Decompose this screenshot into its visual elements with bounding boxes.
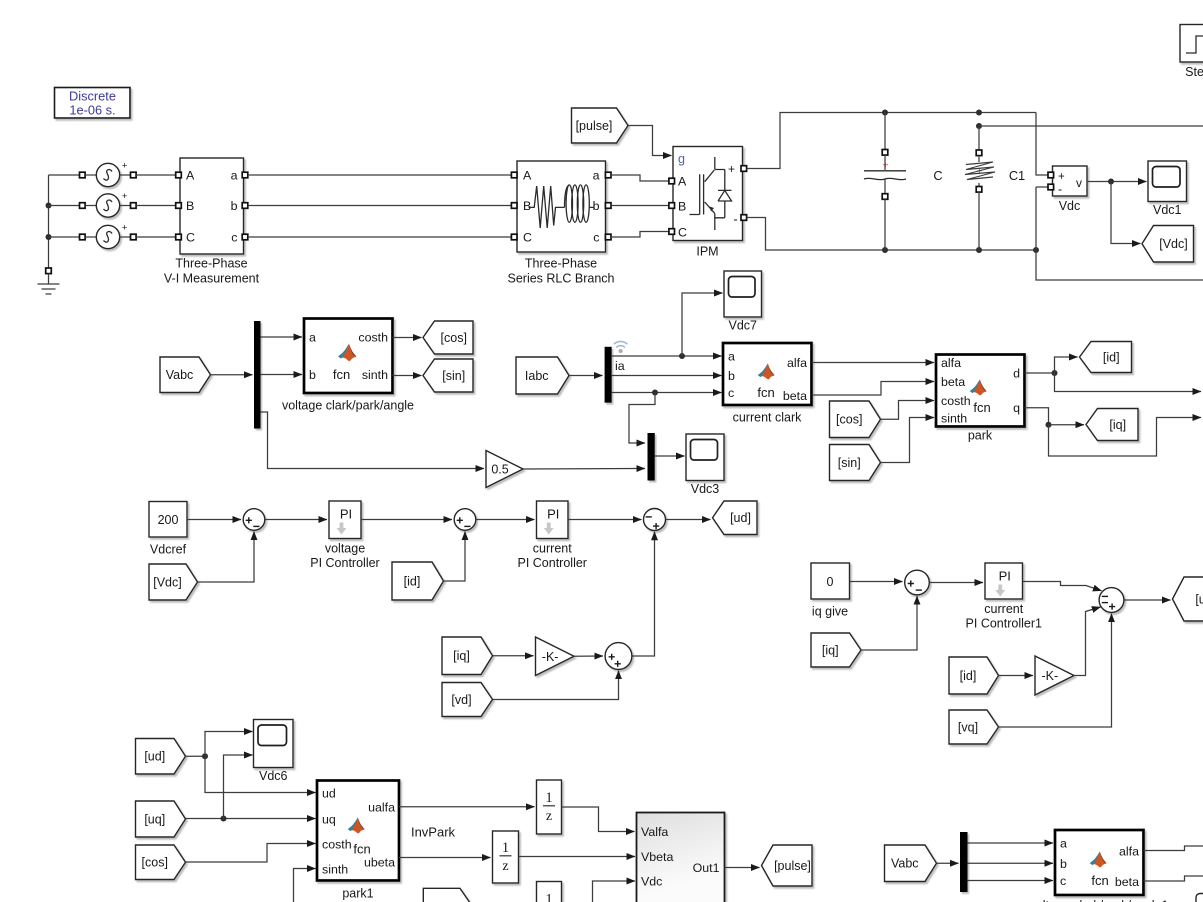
svg-text:PI Controller: PI Controller	[310, 556, 379, 570]
svg-text:fcn: fcn	[1091, 873, 1108, 888]
from tag [cos] to park1	[136, 845, 186, 880]
svg-text:Vdc3: Vdc3	[691, 482, 720, 496]
svg-text:+: +	[728, 162, 735, 176]
unit delay 1/z a	[537, 780, 562, 834]
svg-text:alfa: alfa	[787, 356, 807, 370]
node: bottom bus at C1	[976, 247, 982, 253]
svg-text:costh: costh	[322, 838, 352, 852]
svg-text:Series RLC Branch: Series RLC Branch	[508, 272, 615, 286]
svg-text:b: b	[593, 199, 600, 213]
svg-text:[pulse]: [pulse]	[576, 119, 613, 133]
svg-text:ud: ud	[322, 787, 336, 801]
svg-text:fcn: fcn	[973, 400, 990, 415]
svg-text:PI Controller1: PI Controller1	[966, 617, 1042, 631]
svg-text:1: 1	[545, 891, 552, 902]
wire: clark alfa to park	[812, 362, 935, 364]
goto tag [cos]	[423, 321, 473, 354]
wire: sum1 to voltage PI	[265, 519, 327, 521]
from tag Vabc	[160, 357, 211, 393]
wire: uq to park1 and Vdc6	[186, 818, 316, 820]
wires: measurement outputs a b c to RLC branch	[248, 174, 511, 176]
goto tag [sin]	[423, 359, 473, 392]
goto tag [uq] (clipped)	[1173, 577, 1203, 621]
wire: demux out a	[261, 336, 303, 338]
svg-text:[id]: [id]	[1103, 350, 1120, 364]
svg-text:v: v	[1076, 176, 1082, 190]
from tag [uq] to park1	[136, 801, 186, 837]
svg-text:C: C	[523, 231, 532, 245]
wire: ud to park1 and Vdc6	[186, 755, 206, 757]
svg-text:Vdc1: Vdc1	[1153, 203, 1182, 217]
svg-text:Step: Step	[1185, 65, 1203, 79]
svg-text:a: a	[593, 169, 600, 183]
block: current PI Controller	[537, 501, 569, 539]
node: neutral junction B	[46, 203, 52, 209]
svg-text:uq: uq	[322, 813, 336, 827]
icon: IGBT with anti-parallel diode	[690, 157, 732, 230]
unit delay 1/z b	[493, 831, 519, 883]
goto tag [iq]	[1086, 409, 1138, 441]
svg-text:-K-: -K-	[1041, 669, 1058, 683]
wire: 0 to sum5	[850, 581, 903, 583]
svg-text:-K-: -K-	[542, 650, 559, 664]
node: bottom bus right	[1033, 247, 1039, 253]
wire: current PI to sum3	[568, 519, 642, 521]
svg-text:voltage: voltage	[325, 542, 365, 556]
gain -K- 2	[1035, 656, 1074, 695]
svg-text:IPM: IPM	[696, 245, 718, 259]
wire: demux out b	[261, 374, 303, 376]
svg-text:c: c	[728, 386, 734, 400]
wire: sin to sinth	[881, 418, 935, 463]
svg-text:a: a	[1060, 837, 1067, 851]
svg-text:1: 1	[502, 840, 509, 856]
wire: IPM + output to DC top bus	[747, 113, 1037, 169]
svg-text:C: C	[186, 231, 195, 245]
wire: IPM - output to DC bottom bus	[747, 218, 1037, 251]
svg-text:fcn: fcn	[757, 385, 774, 400]
wire: q output to [iq] and right edge	[1025, 408, 1049, 425]
svg-text:[id]: [id]	[404, 574, 421, 588]
block: fcn voltage clark bottom	[1055, 830, 1144, 895]
wire: cos to costh	[881, 401, 935, 420]
wire: Vdc v output to scope and goto	[1088, 181, 1147, 183]
from tag [sin] to park	[830, 445, 881, 481]
sum2 current error	[454, 509, 476, 531]
svg-text:[id]: [id]	[960, 669, 977, 683]
from tag Iabc	[516, 357, 569, 394]
svg-text:current clark: current clark	[733, 411, 803, 425]
svg-text:Vdc6: Vdc6	[259, 769, 288, 783]
block: Vdc voltage measurement	[1053, 166, 1088, 196]
wire: 1/z b to Out1 Vbeta	[519, 856, 636, 858]
svg-text:current: current	[984, 602, 1023, 616]
wire: demux bottom to 0.5 gain	[261, 412, 485, 469]
goto tag [Vdc]	[1142, 226, 1194, 263]
block: Three-Phase Series RLC Branch	[517, 161, 606, 252]
constant 200 Vdcref	[149, 502, 187, 538]
wire: beta to right edge	[1144, 876, 1203, 881]
svg-text:z: z	[502, 859, 508, 874]
from tag [Vdc] feedback	[149, 564, 198, 600]
svg-text:[Vdc]: [Vdc]	[153, 575, 182, 589]
sum1 voltage error	[243, 509, 265, 531]
svg-text:b: b	[309, 368, 316, 382]
svg-text:[cos]: [cos]	[441, 331, 467, 345]
svg-text:Vdc: Vdc	[1059, 199, 1081, 213]
svg-text:[cos]: [cos]	[142, 856, 168, 870]
svg-text:a: a	[309, 331, 316, 345]
svg-text:b: b	[231, 199, 238, 213]
svg-text:1e-06 s.: 1e-06 s.	[69, 103, 115, 118]
wire: -K-2 to sum6	[1074, 607, 1101, 676]
wire: ia to current clark a and Vdc7	[612, 355, 722, 357]
from tag [vd]	[442, 683, 493, 717]
svg-text:0: 0	[827, 575, 834, 589]
ground symbol	[46, 268, 52, 274]
wire: ib to current clark b	[612, 375, 722, 377]
wire: ubeta to unit delay b	[399, 857, 491, 859]
block corner bottom right	[1196, 894, 1203, 902]
from tag [id] decouple	[949, 657, 999, 694]
demux bus selector (voltage)	[254, 321, 261, 429]
svg-text:alfa: alfa	[1119, 845, 1139, 859]
AC voltage source phase C	[49, 236, 80, 238]
svg-text:A: A	[678, 175, 687, 189]
wire: id to sum2	[444, 532, 466, 582]
svg-text:ia: ia	[615, 359, 625, 373]
svg-text:Iabc: Iabc	[525, 369, 549, 383]
svg-text:InvPark: InvPark	[411, 825, 456, 840]
unit delay 1/z c (partial)	[537, 882, 562, 902]
node: neutral junction C	[46, 234, 52, 240]
svg-text:sinth: sinth	[362, 368, 388, 382]
gain -K- (wL)	[536, 637, 575, 676]
wires: demux3 to fcn abc	[968, 842, 1054, 844]
svg-text:Vdc7: Vdc7	[729, 319, 758, 333]
demux bus selector (current)	[605, 347, 612, 403]
svg-text:current: current	[533, 542, 572, 556]
wire: cos to park1 costh	[186, 844, 316, 863]
demux bus selector bottom	[960, 832, 968, 892]
constant 0 iq give	[811, 563, 850, 599]
svg-text:ualfa: ualfa	[368, 801, 395, 815]
capacitor C1 snubber branch	[978, 126, 980, 150]
wires: RLC outputs to IPM A B C	[611, 175, 670, 181]
icon: signal logging badge	[614, 341, 628, 347]
svg-text:Out1: Out1	[693, 861, 720, 875]
from tag [ud] to park1	[136, 739, 186, 775]
from tag [vq]	[949, 710, 999, 744]
svg-text:B: B	[186, 199, 194, 213]
block: fcn current clark	[723, 343, 812, 405]
from tag [iq] feedback	[811, 633, 861, 667]
svg-text:[ud]: [ud]	[144, 750, 165, 764]
from tag [id] feedback	[392, 562, 444, 600]
from tag partial bottom	[423, 888, 471, 902]
svg-text:sinth: sinth	[322, 863, 348, 877]
icon: RLC resistor zigzag and inductor coil	[529, 186, 565, 228]
svg-text:PI Controller: PI Controller	[518, 556, 587, 570]
node: top bus at C1	[976, 110, 982, 116]
wire: sinth to [sin]	[393, 375, 422, 377]
wire: sum4 up to sum3	[632, 532, 655, 656]
svg-text:park1: park1	[342, 887, 373, 901]
annotation: Discrete 1e-06 s. sample time box	[55, 88, 131, 119]
svg-text:iq give: iq give	[812, 605, 848, 619]
wire: sinth from below	[294, 869, 316, 902]
wire: PI1 to sum6 diagonal	[1023, 582, 1102, 591]
scope Vdc6 (2 inputs)	[254, 720, 294, 768]
wire: pulse to IPM gate g	[628, 126, 672, 156]
AC voltage source phase A	[49, 174, 80, 176]
from tag [iq] for decouple	[442, 637, 493, 675]
svg-text:z: z	[546, 809, 552, 824]
wire: sum3 to [ud]	[666, 519, 711, 521]
goto tag [pulse] bottom	[762, 845, 813, 886]
svg-text:[vd]: [vd]	[451, 693, 471, 707]
scope Vdc3	[686, 434, 724, 481]
svg-text:-: -	[733, 212, 737, 227]
svg-text:+: +	[122, 161, 128, 172]
wire: iq to -K-	[493, 655, 534, 657]
svg-text:beta: beta	[1115, 875, 1139, 889]
svg-text:Discrete: Discrete	[69, 89, 116, 104]
svg-text:[uq]: [uq]	[144, 812, 165, 826]
svg-text:alfa: alfa	[941, 356, 961, 370]
svg-text:Vbeta: Vbeta	[641, 850, 673, 864]
wire: vd to sum4	[493, 671, 619, 700]
svg-text:[vq]: [vq]	[958, 720, 978, 734]
node: v junction	[1108, 179, 1114, 185]
svg-text:q: q	[1013, 401, 1020, 415]
svg-text:Valfa: Valfa	[641, 825, 668, 839]
svg-text:c: c	[231, 231, 237, 245]
svg-text:a: a	[728, 350, 735, 364]
svg-text:PI: PI	[340, 507, 352, 522]
wire: 200 to sum1	[187, 519, 241, 521]
svg-text:ubeta: ubeta	[364, 856, 395, 870]
block: Out1 subsystem	[637, 813, 725, 902]
svg-text:Three-Phase: Three-Phase	[175, 257, 247, 271]
wire: Vdc from below to Out1	[593, 881, 636, 902]
goto tag [id]	[1080, 342, 1132, 373]
svg-text:C: C	[678, 226, 687, 240]
scope Vdc1	[1148, 161, 1187, 202]
svg-text:sinth: sinth	[941, 412, 967, 426]
from tag Vabc bottom	[885, 845, 937, 882]
block: fcn voltage clark/park/angle	[304, 319, 393, 394]
node: C1 tap	[976, 123, 982, 129]
wire: Vabc to demux3	[937, 862, 959, 864]
sum5 iq error	[905, 570, 930, 595]
svg-text:C: C	[933, 168, 942, 183]
svg-text:costh: costh	[358, 331, 388, 345]
wire: Vabc to demux	[211, 374, 253, 376]
wire: sum5 to current PI1	[929, 582, 983, 584]
svg-text:[iq]: [iq]	[1109, 418, 1126, 432]
wire: ualfa to unit delay	[399, 806, 535, 808]
block: voltage PI Controller	[329, 501, 361, 539]
sum4 vd feedforward	[605, 643, 632, 670]
from tag [pulse] top	[572, 108, 629, 143]
svg-text:[Vdc]: [Vdc]	[1159, 237, 1188, 251]
svg-text:a: a	[231, 169, 238, 183]
svg-text:+: +	[1058, 171, 1065, 183]
svg-text:voltage clark/park/angle: voltage clark/park/angle	[282, 399, 414, 413]
svg-text:B: B	[678, 200, 686, 214]
AC voltage source phase B	[49, 205, 80, 207]
svg-text:Vdcref: Vdcref	[150, 543, 187, 557]
svg-text:c: c	[593, 231, 599, 245]
wire: 1/z a to Out1 Valfa	[562, 807, 635, 832]
svg-text:b: b	[728, 369, 735, 383]
sum3 decoupling sum	[644, 509, 666, 531]
from tag [cos] to park	[830, 401, 881, 438]
svg-text:C1: C1	[1009, 168, 1025, 183]
wire: alfa to right edge	[1144, 846, 1203, 851]
wire: 0.5 gain to mux	[523, 468, 645, 471]
wire: -K- to sum4	[574, 655, 603, 657]
wire: bus to Vdc measurement + and -	[1036, 113, 1048, 176]
goto tag [ud]	[713, 501, 758, 535]
svg-text:beta: beta	[783, 389, 807, 403]
svg-text:Vdc: Vdc	[641, 875, 662, 889]
svg-text:-: -	[1058, 183, 1062, 197]
svg-text:[iq]: [iq]	[822, 643, 839, 657]
svg-text:Three-Phase: Three-Phase	[525, 257, 597, 271]
wire: Vdc to sum1	[198, 532, 255, 583]
svg-text:[cos]: [cos]	[836, 413, 862, 427]
svg-text:+: +	[122, 191, 128, 202]
wire: Iabc to demux	[569, 375, 603, 377]
scope Vdc7	[724, 271, 762, 317]
svg-text:PI: PI	[999, 569, 1011, 584]
block: fcn park	[936, 355, 1025, 427]
wire: Out1 to [pulse]	[725, 867, 760, 869]
svg-text:[uq]: [uq]	[1195, 592, 1203, 606]
node: bottom bus at C	[882, 247, 888, 253]
wire: left neutral vertical bus	[48, 175, 50, 268]
block: IPM inverter	[673, 147, 743, 241]
wire: tap to right edge	[979, 125, 1203, 127]
svg-text:V-I Measurement: V-I Measurement	[164, 272, 260, 286]
sum6 uq sum	[1099, 588, 1124, 613]
svg-text:[sin]: [sin]	[442, 369, 465, 383]
wire: vq to sum6	[999, 614, 1112, 727]
wire: voltage PI to sum2	[361, 519, 452, 521]
wire: iq to sum5	[861, 596, 917, 650]
capacitor C branch	[884, 113, 886, 151]
svg-text:costh: costh	[941, 394, 971, 408]
svg-text:[sin]: [sin]	[838, 456, 861, 470]
gain 0.5	[486, 451, 523, 488]
wire: mux to Vdc3	[655, 455, 685, 457]
svg-text:voltage clark/park/angle1: voltage clark/park/angle1	[1030, 899, 1169, 902]
svg-text:+: +	[883, 161, 889, 172]
svg-text:200: 200	[158, 513, 179, 527]
svg-text:[pulse]: [pulse]	[774, 859, 811, 873]
svg-text:+: +	[122, 223, 128, 234]
wire: ic to current clark c and tap to mux	[612, 392, 722, 394]
block: Step (partial, top right)	[1180, 25, 1203, 63]
svg-text:B: B	[523, 199, 531, 213]
wire: sum2 to current PI	[476, 519, 535, 521]
wire: id to -K-2	[999, 675, 1034, 677]
wire: clark beta to park	[812, 382, 935, 396]
mux for Vdc3 scope	[648, 433, 655, 481]
svg-text:b: b	[1060, 857, 1067, 871]
svg-text:d: d	[1013, 367, 1020, 381]
wire: d output to [id] and right edge	[1025, 372, 1055, 374]
svg-text:0.5: 0.5	[491, 463, 508, 477]
svg-text:1: 1	[545, 790, 552, 806]
svg-text:fcn: fcn	[333, 367, 350, 382]
wire: costh to [cos]	[393, 337, 422, 339]
block: fcn park1 InvPark	[317, 781, 399, 881]
svg-text:[iq]: [iq]	[453, 649, 470, 663]
svg-text:beta: beta	[941, 375, 965, 389]
svg-text:park: park	[968, 429, 993, 443]
svg-text:PI: PI	[547, 507, 559, 522]
svg-text:fcn: fcn	[353, 842, 370, 857]
svg-text:A: A	[523, 169, 532, 183]
block: current PI Controller1	[985, 563, 1023, 599]
svg-text:Vabc: Vabc	[166, 368, 194, 382]
svg-text:Vabc: Vabc	[891, 857, 919, 871]
node: top bus at C	[882, 110, 888, 116]
svg-text:c: c	[1060, 874, 1066, 888]
wire: sum6 to [uq]	[1124, 599, 1171, 601]
block: Three-Phase V-I Measurement	[180, 158, 244, 254]
svg-text:A: A	[186, 169, 195, 183]
svg-text:[ud]: [ud]	[730, 511, 751, 525]
svg-text:g: g	[678, 152, 685, 166]
